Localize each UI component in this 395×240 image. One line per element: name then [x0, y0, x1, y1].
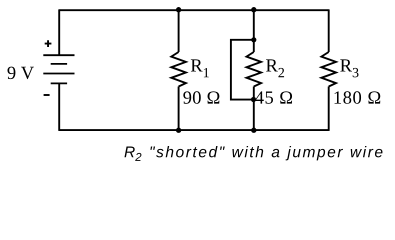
label 9 V [8, 67, 34, 80]
label value 90 ohm [183, 91, 219, 103]
wire R3 branch upper [328, 9, 330, 52]
wire R1 branch upper [178, 10, 180, 52]
label value 45 ohm [255, 91, 292, 103]
battery plus sign [45, 40, 52, 47]
wire left rail lower (battery - plate to bottom rail) [58, 83, 60, 130]
wire bottom rail [59, 129, 329, 131]
label R2 [266, 59, 284, 77]
wire top rail [59, 9, 329, 11]
wire R2 branch upper [253, 10, 255, 52]
battery B1 plate long [43, 73, 74, 75]
battery B1 plate short [51, 63, 67, 65]
label value 180 ohm [335, 91, 381, 103]
node dot bottom rail R2 [251, 128, 256, 133]
wire R1 branch lower [178, 87, 180, 131]
caption: R2 "shorted" with a jumper wire [124, 146, 382, 161]
wire R2 branch lower [253, 87, 255, 131]
resistor R2 zigzag [247, 52, 262, 87]
label R3 [340, 59, 358, 77]
node dot bottom rail R1 [176, 128, 181, 133]
wire left rail upper (top rail to battery + plate) [58, 9, 60, 55]
node dot top rail R2 [251, 7, 256, 12]
resistor R1 zigzag [171, 52, 186, 87]
node dot jumper top [251, 37, 256, 42]
battery minus sign [44, 94, 50, 96]
battery B1 plate long top (+) [43, 54, 74, 56]
battery B1 plate short bottom (-) [51, 82, 67, 84]
wire jumper short around R2 [231, 40, 254, 100]
node dot top rail R1 [176, 7, 181, 12]
label R1 [191, 59, 209, 77]
resistor R3 zigzag [321, 52, 336, 87]
wire R3 branch lower [328, 87, 330, 131]
node dot jumper bottom [251, 97, 256, 102]
